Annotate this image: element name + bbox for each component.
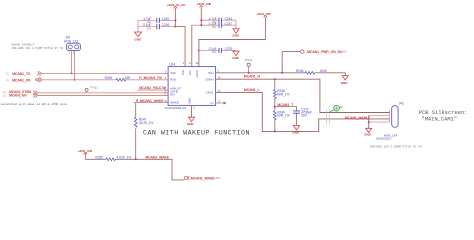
svg-text:R_MCAN1_WAKE: R_MCAN1_WAKE xyxy=(136,99,165,103)
wire +3VS_IVB rail xyxy=(200,7,202,25)
svg-text:MCAN1_FAULT#: MCAN1_FAULT# xyxy=(139,86,165,90)
wire C275 row xyxy=(199,49,219,51)
wire VIO rail to IC xyxy=(191,25,193,66)
svg-text:C244: C244 xyxy=(225,17,233,21)
wire wake rail left xyxy=(85,158,106,160)
net MCAN1_EN off-page xyxy=(3,93,38,97)
wire left bank gnd drop xyxy=(137,20,139,32)
ground J41 xyxy=(364,128,372,136)
svg-text:MCAN1_WAKE: MCAN1_WAKE xyxy=(145,156,169,160)
svg-text:separated pull down on EN & nS: separated pull down on EN & nSTB pins xyxy=(1,102,68,106)
svg-text:nc: nc xyxy=(210,101,214,105)
wire term middle upper xyxy=(274,98,276,111)
svg-text:TCAN1043D-Q1: TCAN1043D-Q1 xyxy=(164,106,186,110)
wire MCAN1_EN xyxy=(38,95,169,97)
pin numbers U24 xyxy=(164,62,221,110)
wire C271 to gnd xyxy=(296,113,298,125)
svg-text:50V: 50V xyxy=(212,26,217,29)
node junction wake rail xyxy=(135,158,137,160)
ground U24 xyxy=(187,117,195,126)
svg-text:(2): (2) xyxy=(3,93,7,97)
ground right cap bank xyxy=(232,29,240,38)
net MCAN1_TX off-page xyxy=(6,71,42,76)
node junction row1 rail xyxy=(174,19,176,21)
svg-text:60R_1%: 60R_1% xyxy=(277,92,289,96)
svg-text:PCB Silkscreen:: PCB Silkscreen: xyxy=(419,110,468,116)
svg-text:8100001127: 8100001127 xyxy=(376,137,392,141)
connector J41 header 1x4 xyxy=(376,102,404,141)
svg-text:CAN WITH WAKEUP FUNCTION: CAN WITH WAKEUP FUNCTION xyxy=(143,130,250,137)
svg-text:GND: GND xyxy=(232,56,240,60)
svg-text:"MAIN_CAM1": "MAIN_CAM1" xyxy=(422,117,458,123)
svg-text:GND: GND xyxy=(232,34,240,38)
wire PWR_ON tap xyxy=(282,52,300,73)
wire MCAN1_RX left xyxy=(42,79,116,81)
svg-text:GND: GND xyxy=(134,38,142,42)
svg-text:MCAN1_H: MCAN1_H xyxy=(244,74,261,78)
svg-text:INH: INH xyxy=(208,71,213,75)
svg-text:100K: 100K xyxy=(320,69,328,73)
svg-text:50V: 50V xyxy=(301,114,308,118)
svg-text:C240: C240 xyxy=(162,17,170,21)
svg-text:GND: GND xyxy=(341,81,349,85)
svg-text:+5V0_IVB: +5V0_IVB xyxy=(257,12,271,16)
resistor R250 4.02K xyxy=(95,155,131,160)
svg-text:(2G): (2G) xyxy=(215,176,221,180)
svg-text:GND: GND xyxy=(292,130,300,134)
svg-text:+3VS_IO_IVI: +3VS_IO_IVI xyxy=(167,3,185,7)
ground C275 xyxy=(232,51,240,60)
svg-text:U24: U24 xyxy=(169,63,175,67)
wire J41 pin4 gnd xyxy=(369,121,390,123)
node junction right row1 xyxy=(200,19,202,21)
svg-text:C247: C247 xyxy=(225,22,233,26)
node junction term mid xyxy=(274,106,276,108)
wire INH net xyxy=(216,72,305,74)
svg-text:60R_1%: 60R_1% xyxy=(277,114,289,118)
svg-text:R245: R245 xyxy=(105,76,113,80)
wire CANH xyxy=(216,79,390,112)
node junction PWR_ON xyxy=(281,72,283,74)
power +3VS_IO_IVI xyxy=(167,3,185,8)
svg-text:CANH: CANH xyxy=(205,78,214,82)
wire wake rail right xyxy=(116,159,185,180)
wire left cap bank row2 xyxy=(138,26,156,28)
capacitor C244 4.7uF xyxy=(209,17,233,24)
svg-text:MCAN1_TX: MCAN1_TX xyxy=(12,72,31,76)
wire J24 pin1 to TX xyxy=(71,51,73,73)
svg-text:MCAN1_WAKE: MCAN1_WAKE xyxy=(191,176,215,180)
wire term lower lead xyxy=(274,119,276,131)
svg-text:+5V0_IVB: +5V0_IVB xyxy=(78,149,92,153)
svg-text:R_MCAN1_RX: R_MCAN1_RX xyxy=(139,76,163,80)
svg-text:TxD: TxD xyxy=(170,71,176,75)
node junction RX header xyxy=(74,79,76,81)
ground left cap bank xyxy=(134,32,142,42)
node junction TX header xyxy=(71,72,73,74)
node junction TP102 xyxy=(248,72,250,74)
svg-text:50V: 50V xyxy=(212,51,217,54)
svg-text:GND: GND xyxy=(187,122,195,126)
svg-text:33.2K_1%: 33.2K_1% xyxy=(139,121,154,125)
wire VCC jog to IC xyxy=(175,27,185,67)
wire MCAN1_RX right / net R_MCAN1_RX xyxy=(124,79,168,81)
doc text header note xyxy=(11,44,63,50)
node junction row2 rail xyxy=(174,26,176,28)
svg-text:J41: J41 xyxy=(399,102,404,106)
svg-text:C206: C206 xyxy=(162,23,170,27)
testpoint TP101 on STB line xyxy=(85,86,98,93)
net MCAN1_PWR_ON_5V port xyxy=(301,50,347,54)
wire INH to gnd xyxy=(315,73,346,76)
svg-text:(1): (1) xyxy=(6,78,10,82)
wire WAKE pulldown lower xyxy=(135,128,137,159)
wire CANL xyxy=(216,92,390,131)
power +5V0_IVB bottom xyxy=(78,149,92,160)
svg-text:VIO: VIO xyxy=(188,71,192,76)
node junction right row2 xyxy=(200,24,202,26)
node junction term bottom xyxy=(274,130,276,132)
wire right cap bank row1 xyxy=(201,19,218,21)
wire J41 pin2 gnd xyxy=(369,115,390,117)
svg-text:TP101: TP101 xyxy=(90,86,98,90)
svg-text:VSUP: VSUP xyxy=(195,70,199,78)
svg-text:4.02K_1%: 4.02K_1% xyxy=(117,155,132,159)
wire left cap bank row1 xyxy=(138,19,156,21)
svg-text:GND: GND xyxy=(364,133,372,137)
op-amp U24 CAN transceiver TCAN1043 xyxy=(164,63,215,111)
wire +5V0_IVB feed xyxy=(199,17,266,67)
capacitor C206 0.1uF xyxy=(143,23,169,30)
svg-text:GND: GND xyxy=(188,98,192,104)
capacitor C271 4700pF xyxy=(293,107,312,117)
svg-text:MCAN1_RX: MCAN1_RX xyxy=(12,78,31,82)
wire U24 nc stub xyxy=(216,102,225,104)
svg-text:R250: R250 xyxy=(95,155,103,159)
svg-text:RxD: RxD xyxy=(170,78,177,82)
svg-text:(1G): (1G) xyxy=(341,50,347,54)
capacitor C247 0.1uF xyxy=(209,22,233,29)
svg-text:(1): (1) xyxy=(6,72,10,76)
svg-text:+3VS_IVB: +3VS_IVB xyxy=(197,2,211,6)
wire WAKE stub xyxy=(134,102,169,104)
wire MCAN1_T to C271 xyxy=(275,107,297,111)
wire nFAULT stub xyxy=(138,89,169,91)
svg-text:R246: R246 xyxy=(296,69,304,73)
wire MCAN1_STBM xyxy=(38,92,169,94)
resistor R248 60R top xyxy=(273,89,289,99)
resistor R245 43R series RX xyxy=(105,76,132,81)
svg-text:CANL: CANL xyxy=(205,91,213,95)
svg-text:WAKE: WAKE xyxy=(170,100,179,104)
svg-text:CON-HDR 1X2 2.54MM PITCH ST TH: CON-HDR 1X2 2.54MM PITCH ST TH xyxy=(11,47,63,50)
svg-text:MCAN1_L: MCAN1_L xyxy=(244,88,260,92)
svg-text:CON-HDR 1X4 2.54MM PITCH ST TH: CON-HDR 1X4 2.54MM PITCH ST TH xyxy=(370,145,422,148)
ground C271 xyxy=(292,126,300,135)
svg-text:VCC: VCC xyxy=(181,70,185,76)
wire U24 GND pin xyxy=(191,105,193,117)
svg-text:43R: 43R xyxy=(125,76,132,80)
svg-text:MCAN1_MAIN_L: MCAN1_MAIN_L xyxy=(345,116,371,120)
wire right bank gnd drop xyxy=(235,20,237,29)
net MCAN1_WAKE off-page bottom xyxy=(184,176,220,180)
net MCAN1_RX off-page xyxy=(6,78,42,83)
node junction VSUP cap tap xyxy=(198,49,200,51)
svg-text:C275: C275 xyxy=(225,47,233,51)
no-connect X xyxy=(224,102,226,104)
svg-text:50V: 50V xyxy=(147,27,152,30)
svg-text:MCAN1_PWR_ON_5V: MCAN1_PWR_ON_5V xyxy=(307,50,342,54)
svg-text:MCAN1_EN: MCAN1_EN xyxy=(9,94,27,98)
resistor R246 100K xyxy=(296,69,328,74)
capacitor C275 0.1uF xyxy=(209,47,233,54)
svg-text:TP102: TP102 xyxy=(245,58,253,62)
wire J24 pin2 to RX xyxy=(74,51,76,80)
svg-text:EN: EN xyxy=(170,92,174,96)
power +5V0_IVB top xyxy=(257,12,271,17)
wire WAKE pulldown upper xyxy=(135,103,137,117)
node junction pin4 gnd xyxy=(368,121,370,123)
power +3VS_IVB xyxy=(197,2,211,7)
ground INH pulldown xyxy=(341,76,349,86)
wire +3VS_IO_IVI rail xyxy=(174,8,176,27)
differential pair marker xyxy=(326,105,342,124)
doc text silkscreen xyxy=(419,110,468,123)
resistor R247 33.2K pulldown xyxy=(134,117,153,127)
wire gnd stem J41 xyxy=(368,116,370,129)
wire right cap bank row2 xyxy=(192,24,219,26)
connector J24 header 1x2 xyxy=(64,36,80,55)
net MCAN1_STBM off-page xyxy=(3,90,38,95)
testpoint TP102 xyxy=(245,58,253,73)
resistor R249 60R bottom xyxy=(273,110,289,120)
capacitor C240 4.7uF xyxy=(143,17,169,24)
wire MCAN1_TX xyxy=(42,72,169,74)
wire term upper lead xyxy=(274,79,276,89)
node junction term top xyxy=(274,78,276,80)
